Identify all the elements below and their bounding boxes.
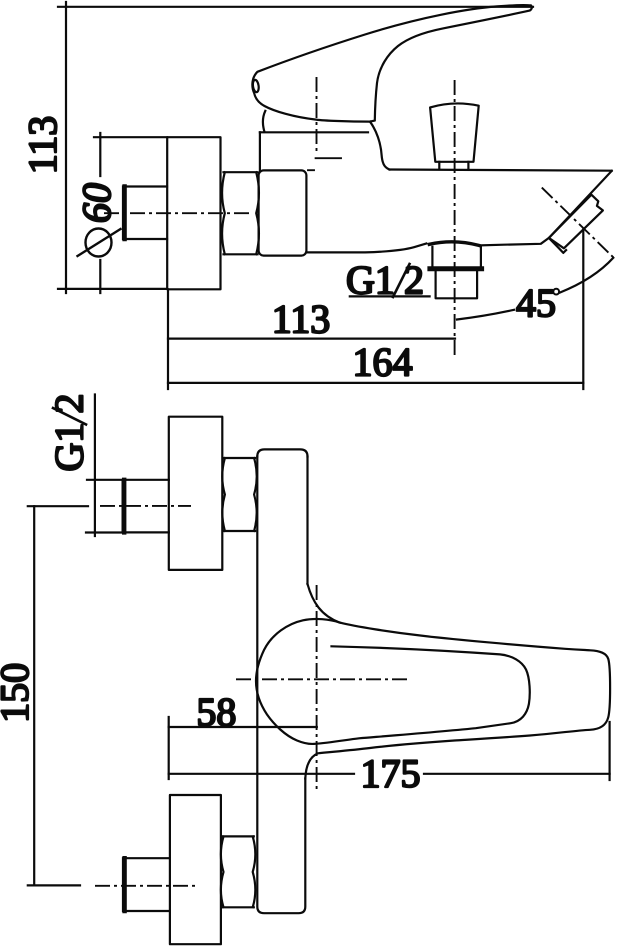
svg-text:113: 113 xyxy=(20,116,65,175)
outlet cap arc (thick) xyxy=(429,242,479,246)
label G1/2 (front view, rotated) xyxy=(47,394,92,472)
connection nut (side) xyxy=(222,172,259,254)
lower mount extension xyxy=(28,884,80,886)
degree symbol circle xyxy=(553,289,559,295)
shower outlet nut sides xyxy=(432,247,481,266)
handle ball and inner contour xyxy=(256,619,530,744)
extension line flange top xyxy=(94,136,167,138)
svg-text:175: 175 xyxy=(361,751,421,796)
spout arm top edge xyxy=(390,170,612,171)
center mark dashes xyxy=(308,158,341,170)
extension line bottom of flange xyxy=(58,288,167,290)
shower outlet thick ring xyxy=(430,266,482,271)
leader under G1/2 xyxy=(350,295,430,297)
svg-text:113: 113 xyxy=(272,297,331,342)
wall supply pipe (side) xyxy=(123,187,167,240)
shower outlet lower piece xyxy=(436,271,478,298)
upper supply pipe (front) xyxy=(123,480,169,533)
body column right edge upper xyxy=(306,457,308,585)
45 outlet axis centerline xyxy=(542,188,614,258)
dimension line 113 horizontal xyxy=(168,338,455,340)
diverter knob xyxy=(430,103,479,161)
upper mount centerline xyxy=(28,505,88,507)
45 degree arc right part xyxy=(560,258,614,293)
body top edge xyxy=(260,131,368,133)
hose nut on 45 outlet xyxy=(549,195,603,249)
svg-text:164: 164 xyxy=(353,340,413,385)
underside right of cap xyxy=(481,238,549,246)
upper pipe thick face xyxy=(122,480,126,533)
pipe thick face xyxy=(122,187,126,240)
svg-text:60: 60 xyxy=(74,183,119,223)
svg-text:150: 150 xyxy=(0,663,37,723)
body left edge xyxy=(259,132,261,170)
lever handle (side profile) xyxy=(252,5,531,121)
centerline horizontal (inlet axis) xyxy=(104,212,250,214)
dimension line 58 xyxy=(169,726,317,728)
eccentric connector body xyxy=(259,170,307,255)
svg-text:2: 2 xyxy=(47,394,92,414)
outlet tip step xyxy=(549,238,566,253)
label Ø60 phi symbol xyxy=(86,229,112,257)
handle outer silhouette xyxy=(305,584,610,779)
diverter knob neck xyxy=(439,162,468,170)
lower pipe thick face xyxy=(122,858,126,911)
handle pivot pin xyxy=(252,79,259,92)
dimension line Ø60 vertical xyxy=(99,133,101,293)
cartridge centerline vertical xyxy=(316,77,318,153)
upper wall flange (front) xyxy=(169,417,223,570)
knob/outlet centerline vertical xyxy=(454,80,456,359)
dimension line 113 vertical xyxy=(65,2,67,293)
lower mount centerline xyxy=(95,885,196,887)
extension line 175 right xyxy=(608,722,610,780)
extension line 164 right xyxy=(582,230,584,390)
45 degree end cut xyxy=(549,171,612,238)
cartridge collar left arc xyxy=(263,111,265,132)
handle horizontal centerline xyxy=(236,678,410,680)
svg-text:58: 58 xyxy=(196,690,236,735)
leader line G1/2 vertical xyxy=(94,395,96,537)
body column left edge and bottom xyxy=(257,457,305,914)
neck right S-curve xyxy=(370,122,390,170)
upper connection nut (front) xyxy=(222,458,256,531)
extension ticks for pipe xyxy=(86,480,123,533)
extension line top (overall height datum) xyxy=(58,6,533,8)
dimension line 175 xyxy=(169,773,610,775)
extension line left (wall plane) xyxy=(167,289,169,389)
dimension line 150 vertical xyxy=(33,506,35,885)
body column top xyxy=(257,449,307,456)
body bottom edge and underside xyxy=(307,244,427,253)
lower connection nut (front) xyxy=(221,836,255,907)
lower supply pipe (front) xyxy=(123,858,170,911)
lower wall flange (front) xyxy=(170,795,221,944)
handle vertical centerline xyxy=(316,585,318,790)
wall flange escutcheon (side) xyxy=(167,137,220,289)
extension line wall plane (front) xyxy=(168,717,170,779)
svg-text:G1: G1 xyxy=(47,423,92,472)
dimension line 164 xyxy=(168,382,583,384)
svg-text:45: 45 xyxy=(516,281,556,326)
label G1/2 (top view) xyxy=(346,258,424,303)
45 degree arc left part xyxy=(457,310,514,320)
